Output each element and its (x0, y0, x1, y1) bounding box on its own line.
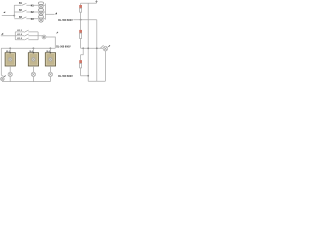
wire feeder input (2, 15, 15, 17)
motor M (42, 35, 46, 39)
wire box2 bottom (32, 66, 34, 72)
fuse FU2 (80, 20, 82, 31)
wire box2 top (32, 48, 34, 52)
riser A (87, 3, 89, 81)
svg-text:K1: K1 (31, 5, 35, 7)
wire meter output bus (43, 4, 45, 20)
node c arrow (1, 33, 3, 35)
label b tick lamp2 (108, 45, 110, 47)
node dot box2 (33, 47, 35, 49)
meter M1 ellipse (38, 2, 43, 22)
svg-text:K1.1: K1.1 (17, 30, 22, 32)
riser B (96, 20, 98, 82)
wire box1 top (9, 48, 11, 52)
box XL1 (5, 53, 15, 66)
node dot run2 drop (82, 47, 84, 49)
box XL3 (45, 53, 55, 66)
lamp EL1 (8, 72, 12, 76)
wire run1 (73, 19, 96, 21)
wire bottom rail right (88, 80, 105, 82)
meter M1 lamp circle (39, 4, 43, 8)
switch K1.1 (15, 30, 38, 32)
fuse FU1 (80, 3, 82, 5)
wire box1 bottom (9, 66, 11, 72)
wire left bus (1, 47, 55, 49)
box XL2 (28, 53, 38, 66)
svg-text:M: M (43, 36, 45, 39)
wire run2 (81, 47, 104, 49)
svg-text:DL-500 600V: DL-500 600V (58, 18, 73, 22)
switch QF3 (14, 17, 39, 19)
node arrow top right (96, 1, 98, 4)
node a feeder arrow (3, 11, 5, 13)
fuse FU3 (80, 55, 82, 61)
switch left lamp blade (1, 75, 4, 77)
meter M2 ellipse (38, 9, 43, 12)
switch QF1 (14, 3, 39, 5)
meter M2 lamp circle (39, 11, 43, 15)
svg-text:DL-500 600V: DL-500 600V (58, 74, 73, 78)
lamp EL0 (1, 77, 5, 81)
wire feeder 2 (1, 35, 16, 37)
svg-text:K1.2: K1.2 (17, 34, 22, 36)
wire drop to fuse3 (81, 48, 84, 54)
wire motor out (46, 37, 55, 48)
switch K1.3 (15, 38, 38, 40)
lamp EL3 (48, 72, 52, 76)
wire lamp2 drop (104, 51, 106, 81)
switch QF2 (14, 10, 39, 12)
node dot box1 (9, 47, 11, 49)
tick near corner (57, 32, 58, 34)
lamp HL2 (103, 46, 108, 51)
switch lamp2 blade (100, 45, 104, 48)
wire bottom rail left (2, 80, 50, 83)
wire left vertical bus (13, 5, 15, 18)
wire meter out to b (45, 13, 54, 15)
wire run3 (81, 75, 89, 77)
lamp EL2 (31, 72, 35, 76)
node dot box3 (50, 47, 52, 49)
switch K1.2 (15, 34, 38, 36)
node junction dot feeder (13, 15, 15, 17)
tick left lamp (4, 76, 5, 77)
wire ladder to motor (38, 35, 42, 38)
meter M3 ellipse (38, 15, 43, 18)
node dot run3 riser (87, 75, 89, 77)
wire left drop (0, 48, 2, 75)
node dot run2 riser (87, 47, 89, 49)
node b arrow (55, 12, 57, 14)
svg-text:K3: K3 (31, 19, 35, 21)
node dot run2 riserB (96, 47, 98, 49)
svg-text:DL-500 600V: DL-500 600V (56, 45, 71, 49)
meter M3 lamp circle (39, 18, 43, 22)
svg-text:K2: K2 (31, 12, 35, 14)
wire box3 top (49, 48, 51, 52)
switch ladder frame (15, 32, 38, 40)
wire top header (81, 2, 97, 4)
wire box3 bottom (49, 66, 51, 72)
node dot run1 fuse (80, 19, 82, 21)
svg-text:K1.3: K1.3 (17, 38, 22, 40)
